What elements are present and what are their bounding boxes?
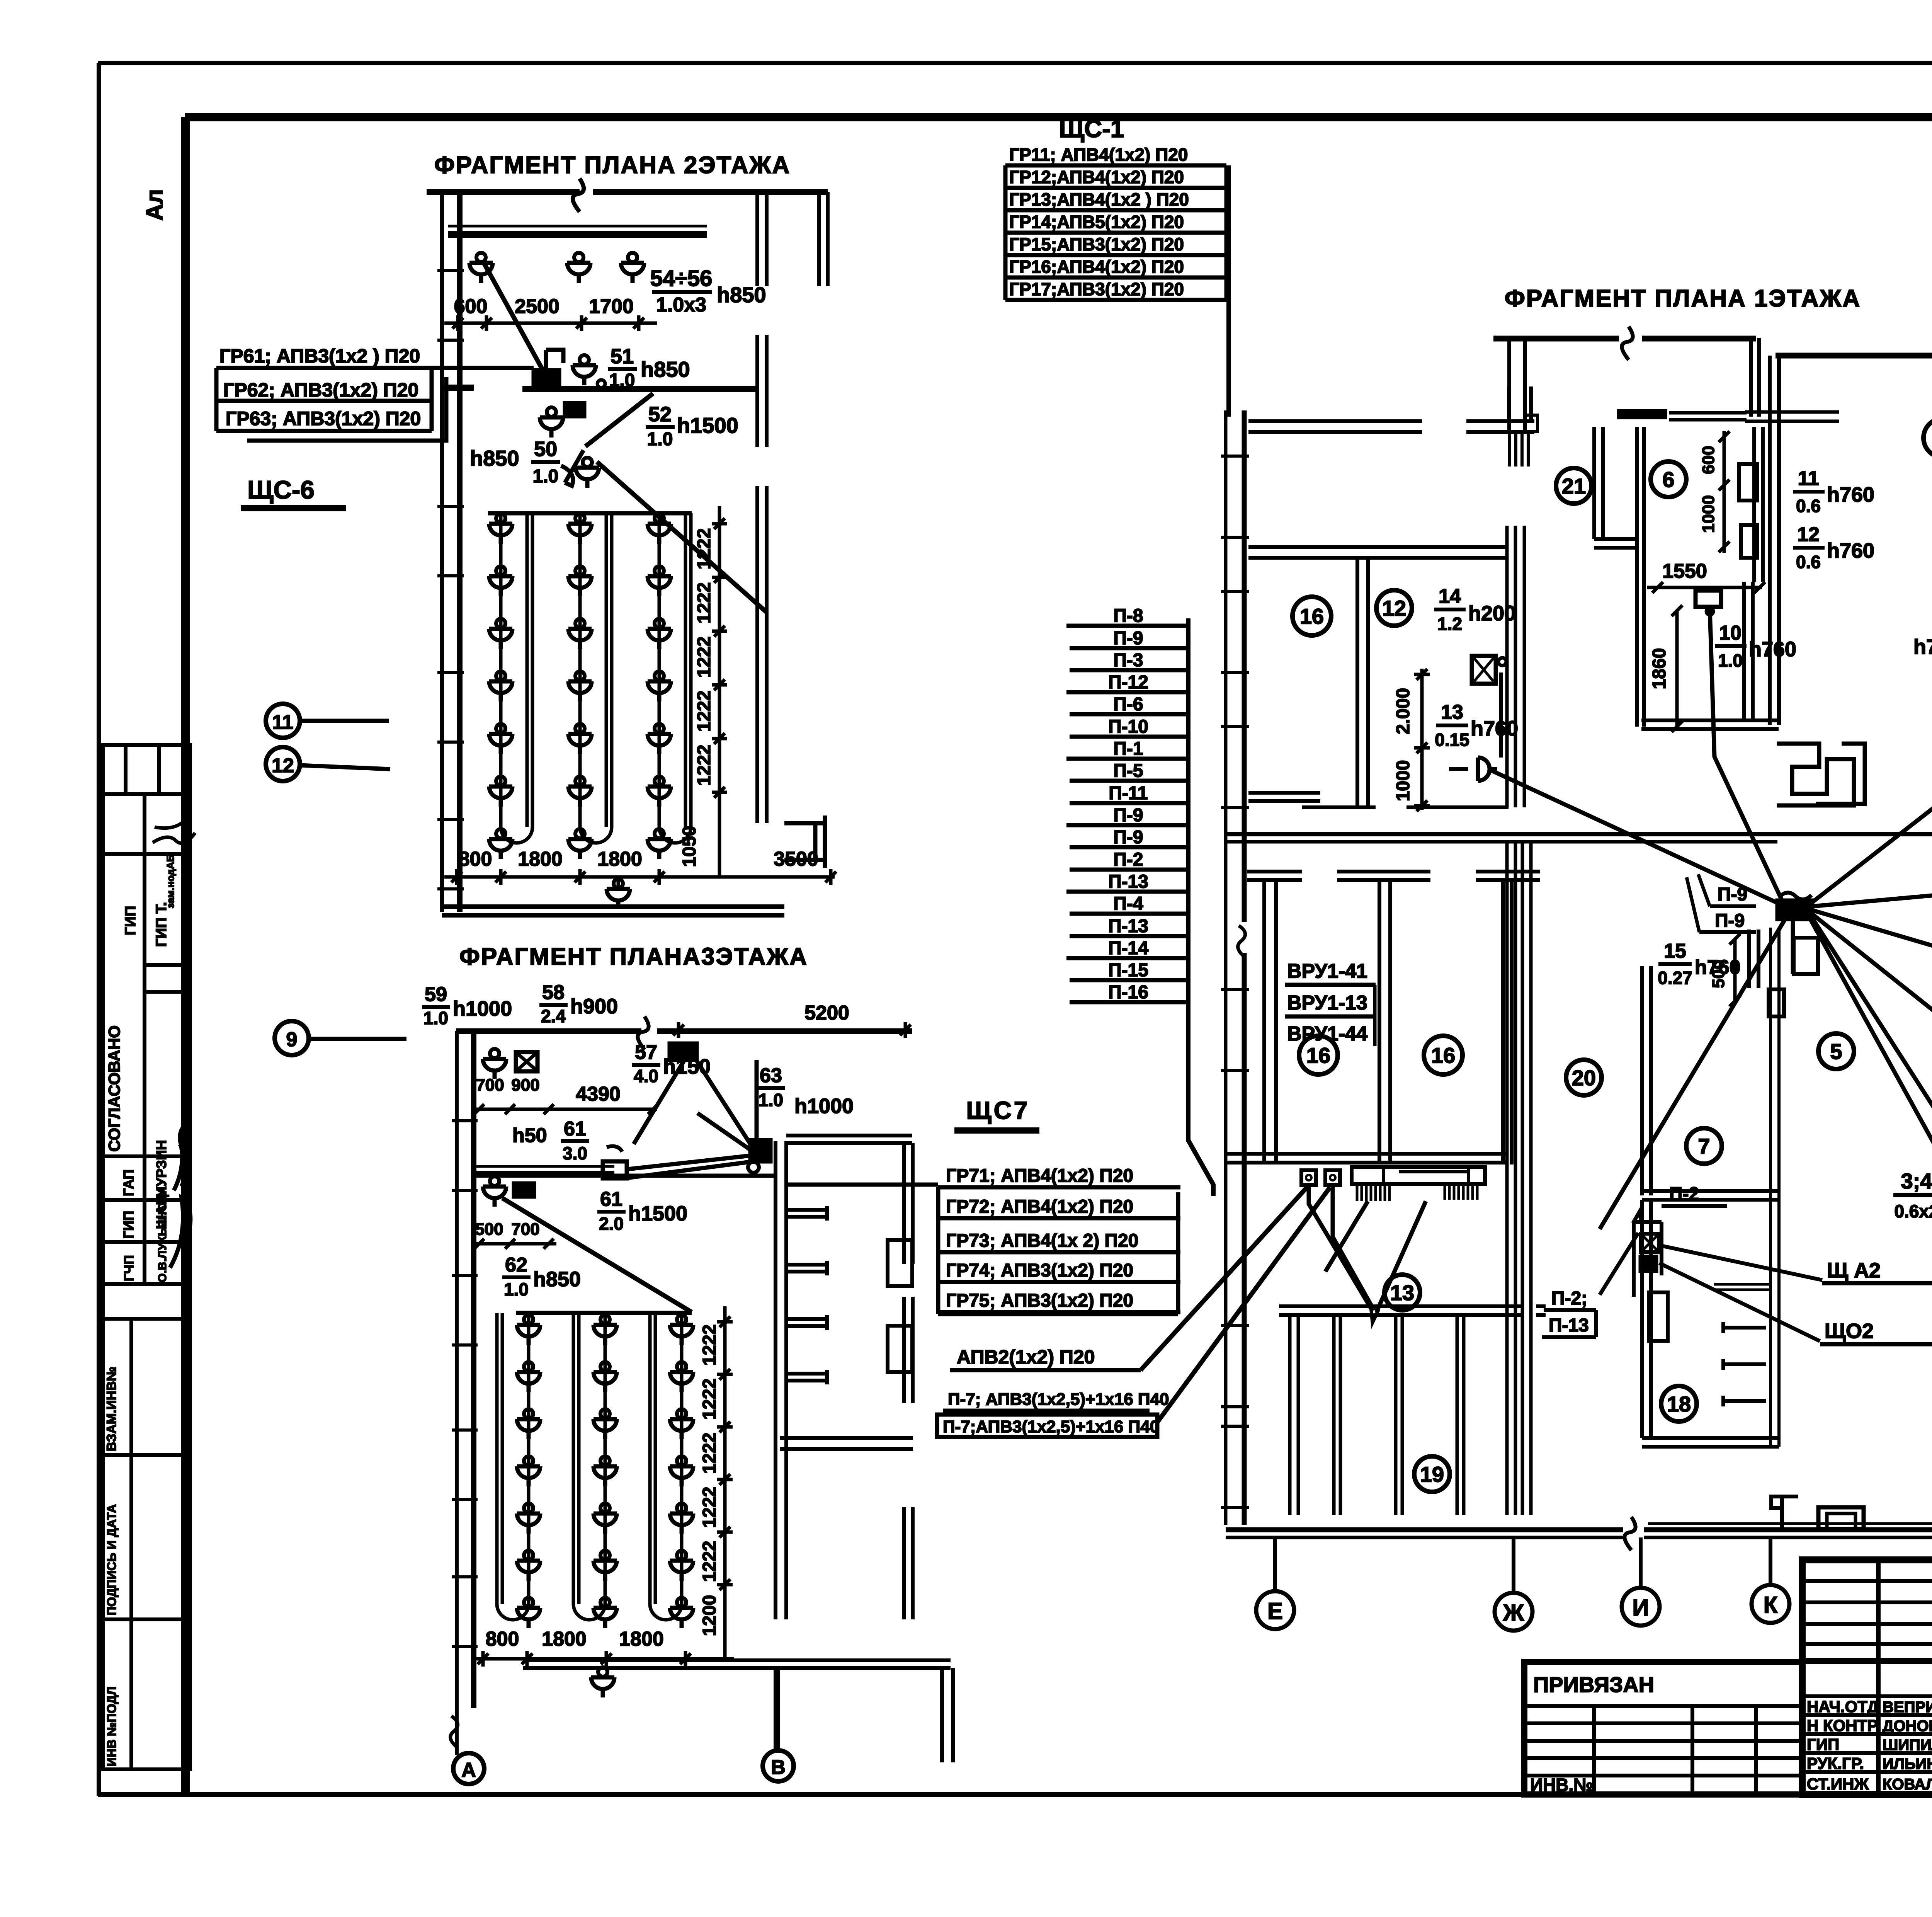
svg-text:К: К [1764,1592,1778,1618]
top wall of right rooms [786,1136,912,1143]
svg-text:П-9: П-9 [1113,827,1143,848]
meander shaft walls [1777,744,1865,805]
svg-text:1050: 1050 [679,826,700,867]
room bubble 5 [1818,1033,1854,1069]
svg-text:11: 11 [1798,467,1819,490]
lamps col 1566 [594,1315,617,1345]
wire from ЩС-1 down [1226,165,1231,417]
svg-text:Е: Е [1267,1598,1283,1624]
svg-text:57: 57 [635,1041,657,1064]
svg-text:1200: 1200 [699,1595,720,1636]
svg-text:П-16: П-16 [1108,982,1148,1003]
corridor wall right of block [1770,928,1779,1447]
svg-text:16: 16 [1300,604,1324,628]
column bubble В [763,1750,794,1781]
feeder line ГР16 [1005,276,1226,280]
lower wing walls [776,1668,953,1762]
svg-text:ЩС-1: ЩС-1 [1059,115,1124,143]
svg-text:12: 12 [272,754,294,777]
title block outer frame [1802,1560,1932,1794]
lamp below bottom [591,1667,614,1697]
svg-text:500: 500 [475,1220,503,1239]
svg-text:ГР14;АПВ5(1х2) П20: ГР14;АПВ5(1х2) П20 [1009,212,1184,232]
svg-text:54÷56: 54÷56 [650,266,713,291]
desk column at 1764 [680,1313,684,1604]
svg-text:18: 18 [1667,1392,1691,1416]
svg-text:И: И [1632,1595,1649,1621]
corridor dark wall line [448,231,707,238]
svg-text:h200: h200 [1468,602,1516,625]
svg-text:1.0х3: 1.0х3 [656,294,706,316]
svg-text:h850: h850 [470,446,519,470]
svg-text:Н КОНТР: Н КОНТР [1807,1716,1878,1735]
svg-text:ШИПИЛИН: ШИПИЛИН [1883,1737,1932,1754]
svg-text:ФРАГМЕНТ ПЛАНА 1ЭТАЖА: ФРАГМЕНТ ПЛАНА 1ЭТАЖА [1505,285,1861,312]
svg-text:51: 51 [611,345,634,368]
svg-text:14: 14 [1439,585,1461,608]
svg-text:h1000: h1000 [794,1095,854,1118]
plan3 bottom walls [523,1660,951,1668]
svg-text:А: А [461,1759,476,1781]
svg-text:ГР73; АПВ4(1х 2) П20: ГР73; АПВ4(1х 2) П20 [946,1231,1138,1251]
entrance top wall [1493,336,1756,342]
classroom top line [488,511,692,516]
svg-text:4390: 4390 [576,1083,621,1105]
SEC:plan2 [216,152,836,1055]
svg-text:800: 800 [459,848,492,870]
svg-text:h850: h850 [641,357,690,381]
junction cluster [534,370,559,386]
panel feeder П-5 row 8 [1070,779,1188,783]
lamp below bottom wall [607,879,630,909]
svg-text:ЩО2: ЩО2 [1825,1319,1874,1343]
room16 lower stub [1248,793,1509,807]
leader П-2 to box [1600,1212,1642,1295]
svg-text:h1500: h1500 [628,1202,687,1225]
svg-text:П-6: П-6 [1113,694,1143,715]
panel feeder П-10 row 6 [1070,735,1188,739]
svg-text:П-7; АПВ3(1х2,5)+1х16 П40: П-7; АПВ3(1х2,5)+1х16 П40 [948,1390,1169,1409]
desk column at 1706 [658,513,661,827]
svg-text:61: 61 [564,1118,586,1140]
plan3 left wall [455,1031,459,1755]
svg-text:П-5: П-5 [1113,761,1143,781]
SEC:leftstamps [103,745,195,1770]
room bubble 7 [1686,1128,1722,1164]
window sills plan2 left wall [437,271,464,889]
top small box row [103,745,190,794]
plan3 top wall with break [456,1028,912,1034]
wires from panels [1309,1185,1426,1312]
svg-text:СОГЛАСОВАНО: СОГЛАСОВАНО [105,1025,123,1152]
approval section grid [103,794,190,1156]
svg-text:ВРУ1-41: ВРУ1-41 [1287,960,1367,982]
wires from hub [1710,609,1782,901]
svg-text:П-2;: П-2; [1551,1288,1587,1309]
panel feeder П-6 row 5 [1070,712,1188,717]
svg-text:Ал: Ал [141,189,167,220]
svg-text:1000: 1000 [1393,760,1413,802]
fan wires from junction [627,1059,757,1178]
room 12 fixtures [1472,656,1496,684]
svg-text:9: 9 [286,1028,298,1051]
panel feeder П-12 row 4 [1066,690,1188,695]
inner thick border top [185,113,1932,121]
svg-text:16: 16 [1306,1043,1330,1067]
entrance side walls [1509,338,1759,430]
rooms 16-12 band top wall [1248,547,1509,558]
svg-text:П-8: П-8 [1113,606,1143,626]
svg-text:П-10: П-10 [1108,717,1148,737]
svg-text:1800: 1800 [619,1628,664,1650]
svg-text:1800: 1800 [597,848,642,870]
svg-text:13: 13 [1390,1280,1414,1305]
outer frame bottom line [98,1792,1932,1797]
П-9 stubs below hub [1749,930,1759,988]
window niches [888,1240,912,1286]
svg-text:П-2: П-2 [1669,1184,1699,1204]
svg-text:ГИП Т.: ГИП Т. [153,902,170,947]
panel feeder П-9 row 11 [1070,845,1188,850]
svg-text:59: 59 [425,983,447,1006]
bottom-right stub box [784,815,825,868]
column bubble И [1622,1588,1660,1626]
svg-text:ФРАГМЕНТ ПЛАНА 2ЭТАЖА: ФРАГМЕНТ ПЛАНА 2ЭТАЖА [434,152,791,179]
corridor wall right of 12 [1507,526,1524,807]
svg-text:6: 6 [1662,467,1674,492]
svg-text:П-9: П-9 [1718,884,1747,905]
svg-text:ГР17;АПВ3(1х2) П20: ГР17;АПВ3(1х2) П20 [1009,279,1184,299]
bench wall [1714,1284,1770,1290]
column bubble К [1752,1585,1789,1623]
svg-text:h760: h760 [1471,717,1518,740]
svg-text:20: 20 [1572,1066,1596,1090]
svg-text:П-13: П-13 [1108,916,1148,936]
SEC:plan3 [422,943,1330,1784]
plist right bus wire [1188,618,1213,1196]
svg-text:ПРИВЯЗАН: ПРИВЯЗАН [1533,1672,1654,1697]
svg-text:ГР15;АПВ3(1х2) П20: ГР15;АПВ3(1х2) П20 [1009,234,1184,254]
room bubble 4 [1923,419,1932,457]
lamps col 1764 [670,1315,693,1345]
small switch mid [603,1161,627,1178]
leader from ГР71 to plan [786,1183,938,1187]
plan1 left exterior wall [1224,410,1228,1525]
wire 50 lamp hook [561,450,583,486]
svg-text:АПВ2(1х2) П20: АПВ2(1х2) П20 [957,1346,1095,1368]
svg-text:h760: h760 [1695,956,1741,979]
svg-text:ГР61; АПВ3(1х2 ) П20: ГР61; АПВ3(1х2 ) П20 [219,345,420,367]
panel feeder П-16 row 18 [1070,1000,1188,1004]
svg-text:СТ.ИНЖ: СТ.ИНЖ [1807,1775,1869,1793]
electro room top wall [1226,1154,1507,1163]
svg-text:1.0: 1.0 [647,429,673,449]
svg-text:П-9: П-9 [1113,805,1143,826]
panel feeder П-2 row 12 [1070,868,1188,872]
leader wire from ГР61 to cluster [433,366,534,370]
svg-text:1.0: 1.0 [609,370,635,391]
svg-text:1000: 1000 [1699,495,1718,533]
svg-text:4.0: 4.0 [634,1066,658,1086]
basins room 6 [1739,464,1757,501]
svg-text:П-13: П-13 [1108,872,1148,892]
panel feeder П-9 row 10 [1066,823,1188,827]
desk column at 1501 [578,513,582,827]
svg-text:3;4: 3;4 [1901,1169,1932,1193]
svg-text:П-1: П-1 [1113,739,1143,759]
svg-text:h1000: h1000 [453,997,512,1020]
section divider box [103,1317,190,1321]
svg-text:5: 5 [1830,1039,1842,1064]
circled 11 [266,704,300,738]
svg-text:ГР62; АПВ3(1х2) П20: ГР62; АПВ3(1х2) П20 [223,379,418,401]
svg-text:П-7;АПВ3(1х2,5)+1х16 П40: П-7;АПВ3(1х2,5)+1х16 П40 [943,1417,1159,1436]
panel feeder П-1 row 7 [1066,757,1188,761]
SEC:plan1 [1221,285,1932,1554]
panel feeder П-13 row 13 [1066,890,1188,894]
svg-text:600: 600 [454,295,488,318]
left grid verticals [1878,1560,1932,1794]
svg-text:700: 700 [476,1076,504,1095]
room 4 walls [1776,353,1932,359]
panel comb teeth right [1445,1184,1477,1200]
svg-text:ПОДПИСЬ И ДАТА: ПОДПИСЬ И ДАТА [105,1504,119,1616]
lamps col 1706 [648,514,671,544]
stamp column outer box [103,745,190,1769]
svg-text:1222: 1222 [694,528,714,570]
svg-text:П-12: П-12 [1108,672,1148,693]
column bubble А [453,1753,484,1784]
svg-text:1222: 1222 [694,582,714,624]
panel feeder П-3 row 3 [1070,668,1188,672]
electro room bottom wall [1279,1306,1546,1315]
svg-text:П-13: П-13 [1549,1315,1589,1336]
ЩС-1 box sides [1005,165,1226,300]
svg-text:П-9: П-9 [1113,628,1143,649]
label rows [1802,1696,1932,1772]
window sills left wall plan1 [1221,456,1249,1507]
room 21 partition [1594,427,1637,548]
corridor wall dark [474,1171,614,1178]
corridor left wall lower [1507,842,1531,1515]
svg-text:ГР74; АПВ3(1х2) П20: ГР74; АПВ3(1х2) П20 [946,1260,1133,1281]
panel feeder П-15 row 17 [1070,978,1188,982]
feeder line ГР12 [1005,186,1226,190]
switch 57 box [670,1044,697,1060]
wire to classroom long diagonal [597,462,767,613]
panel feeder П-14 row 16 [1066,956,1188,960]
panel feeder П-11 row 9 [1070,801,1188,805]
panel feeder П-8 row 1 [1066,624,1188,628]
svg-text:1700: 1700 [589,295,634,318]
room bubble 13 [1384,1275,1420,1310]
room bubble 18 [1661,1386,1697,1422]
svg-text:0.6: 0.6 [1796,552,1821,572]
svg-text:ЩС-6: ЩС-6 [247,475,315,504]
wire lamp1 to cluster [484,263,543,370]
svg-text:1.0: 1.0 [504,1279,529,1299]
room bubble 20 [1566,1060,1602,1095]
svg-text:1222: 1222 [699,1541,720,1582]
circled 9 [275,1021,309,1055]
svg-text:61: 61 [600,1188,622,1210]
svg-text:О.В.ЛУКЬЯНОВА: О.В.ЛУКЬЯНОВА [156,1186,169,1282]
svg-text:1222: 1222 [694,637,714,678]
svg-text:1800: 1800 [518,848,563,870]
svg-text:1.0: 1.0 [423,1008,448,1028]
vertical dim line right of desks [718,506,721,877]
svg-text:15: 15 [1664,940,1686,962]
switch room6 [1696,591,1721,607]
plan2 left wall double [440,192,444,912]
svg-text:h900: h900 [570,995,618,1018]
panel feeder П-4 row 14 [1070,912,1188,916]
svg-text:ВЕПРИНСКИЙ: ВЕПРИНСКИЙ [1883,1698,1932,1716]
rooms 7-18 block [1642,966,1651,1195]
svg-text:62: 62 [505,1254,527,1276]
corridor lamp left [483,1176,506,1207]
svg-text:h1500: h1500 [677,413,738,438]
svg-text:КОВАЛЕВ: КОВАЛЕВ [1883,1776,1932,1793]
far right wall segments [904,1143,913,1619]
svg-text:ДОНОВСКАЯ: ДОНОВСКАЯ [1883,1718,1932,1735]
panel squares [1301,1170,1316,1185]
feeder line ГР11 [1005,163,1226,168]
panel feeder П-13 row 15 [1070,934,1188,938]
room bubble 16 [1299,1036,1338,1074]
svg-text:ЩС7: ЩС7 [966,1096,1030,1124]
wire corridor to classroom [502,1198,692,1312]
lamps col 1368 [517,1315,540,1345]
svg-text:52: 52 [648,403,672,426]
shelf wall y1007 [522,386,757,392]
SEC:shch1 [1005,115,1229,417]
svg-text:Ж: Ж [1503,1600,1524,1626]
room bubble 21 [1556,468,1592,504]
svg-text:1222: 1222 [694,691,714,732]
upper section rows [1802,1581,1932,1644]
svg-text:900: 900 [511,1076,539,1095]
room 6 right walls [1744,427,1763,720]
svg-text:h850: h850 [717,283,766,307]
corridor top wall full [1226,832,1932,836]
svg-text:ГР12;АПВ4(1х2) П20: ГР12;АПВ4(1х2) П20 [1009,167,1184,187]
svg-text:2500: 2500 [515,295,560,318]
hub bundle [1777,901,1812,919]
svg-text:3.0: 3.0 [563,1143,587,1163]
svg-text:h760: h760 [1827,539,1874,562]
svg-text:ГР13;АПВ4(1х2 ) П20: ГР13;АПВ4(1х2 ) П20 [1009,189,1189,209]
svg-text:1.0: 1.0 [533,466,559,487]
svg-text:1.2: 1.2 [1437,614,1462,634]
svg-text:7: 7 [1698,1134,1710,1158]
svg-text:5200: 5200 [804,1002,849,1024]
svg-text:58: 58 [542,981,565,1004]
svg-text:ВЗАМ.ИНВ№: ВЗАМ.ИНВ№ [104,1367,119,1451]
svg-text:ГИП: ГИП [121,1211,136,1239]
svg-text:1222: 1222 [699,1325,720,1366]
svg-text:ГР16;АПВ4(1х2) П20: ГР16;АПВ4(1х2) П20 [1009,257,1184,277]
desk column at 1296 [499,513,503,827]
room bubble 12 [1376,590,1412,626]
svg-text:h50: h50 [512,1124,547,1147]
room bubble 19 [1414,1456,1450,1492]
room bubble 16 [1293,597,1331,635]
svg-text:0.6: 0.6 [1796,496,1821,516]
svg-text:21: 21 [1562,474,1586,498]
SEC:plist [1066,606,1213,1196]
partition stubs right of corridor [786,1206,827,1221]
svg-text:ГР63; АПВ3(1х2) П20: ГР63; АПВ3(1х2) П20 [226,408,421,429]
vertical dim line right of desks [723,1306,727,1662]
junction blob [750,1140,770,1161]
svg-text:h760: h760 [1827,483,1874,506]
svg-text:13: 13 [1441,701,1463,724]
feeder ГР75 [938,1310,1180,1314]
svg-text:1222: 1222 [694,745,714,786]
stairs in 18 [1723,1322,1766,1333]
svg-text:3500: 3500 [774,848,818,870]
diagonal cables to plan1 [1141,1186,1330,1422]
svg-text:10: 10 [1719,622,1742,644]
svg-text:ГАП: ГАП [121,1169,136,1196]
svg-text:П-11: П-11 [1109,783,1148,804]
square fixture [1818,1507,1864,1529]
svg-text:2.000: 2.000 [1393,688,1413,734]
corridor dim line [444,322,657,325]
plan2 top wall [427,189,828,195]
corridor lamps [469,253,493,283]
svg-text:63: 63 [760,1064,782,1087]
svg-text:16: 16 [1431,1043,1455,1067]
wardrobe rack lines [1290,1315,1298,1515]
panel feeder П-9 row 2 [1070,646,1188,650]
wall between 16 and 12 [1357,558,1368,807]
svg-text:12: 12 [1382,596,1406,620]
room bubble 16 [1424,1036,1463,1074]
toilet symbol [1771,1496,1798,1527]
feeder ГР74 [938,1280,1180,1284]
circled 12 [266,747,300,781]
svg-text:ФРАГМЕНТ ПЛАНА3ЭТАЖА: ФРАГМЕНТ ПЛАНА3ЭТАЖА [459,943,808,970]
SEC:titleblock [1256,1537,1932,1795]
wall box with switch [1634,1222,1662,1297]
svg-text:1.0: 1.0 [759,1090,783,1110]
privyazan grid [1524,1706,1802,1794]
svg-text:50: 50 [534,438,557,461]
svg-text:В: В [771,1756,786,1779]
svg-text:ГР71; АПВ4(1х2) П20: ГР71; АПВ4(1х2) П20 [946,1166,1133,1186]
svg-text:11: 11 [272,711,294,734]
svg-text:ВРУ1-44: ВРУ1-44 [1287,1023,1367,1045]
svg-text:700: 700 [511,1220,539,1239]
privyazan block frame [1524,1662,1802,1794]
svg-text:600: 600 [1699,446,1718,474]
svg-text:П-2: П-2 [1113,850,1143,870]
feeder line ГР14 [1005,231,1226,235]
svg-text:1222: 1222 [699,1433,720,1474]
outer frame top line [98,61,1932,65]
svg-text:1550: 1550 [1662,560,1707,582]
svg-text:ГИП: ГИП [1807,1735,1839,1754]
svg-text:12: 12 [1797,523,1820,546]
svg-text:НАЧ.ОТД: НАЧ.ОТД [1807,1697,1879,1716]
panel comb teeth left [1357,1184,1389,1201]
bottom wall plan1 [1226,1527,1932,1532]
svg-text:19: 19 [1420,1462,1444,1486]
plan2 top-right corner wall [819,192,828,286]
signature squiggle 1 [153,820,195,843]
